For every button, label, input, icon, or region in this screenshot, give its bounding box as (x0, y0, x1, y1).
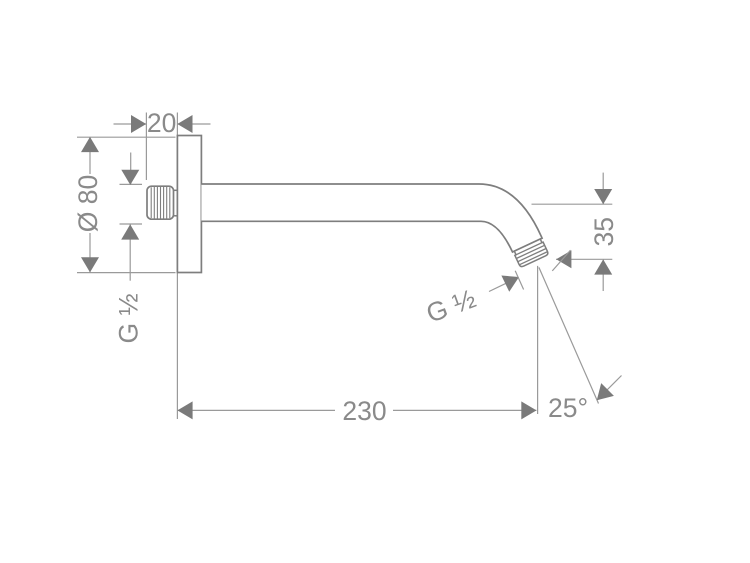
wall plate (escutcheon) (177, 136, 201, 273)
wire: wall face extension line (176, 113, 178, 420)
dimension 35: upper arrowhead (down) (594, 189, 612, 204)
label G1/2 at outlet: leader line (489, 283, 506, 291)
dimension 35: lower arrow tail (602, 260, 604, 291)
dimension G1/2 knob: down arrow tail (130, 153, 132, 185)
dimension 230: left arrowhead (177, 401, 192, 419)
dimension G1/2 knob: down arrowhead (121, 170, 139, 185)
dimension G1/2 knob: lower tick (120, 223, 143, 225)
wall connector stub: bottom edge (174, 215, 178, 217)
wall connector knob body (147, 186, 174, 219)
dimension 230: dimension line left segment (178, 409, 336, 411)
dimension 35: lower extension/arrow line (556, 258, 612, 260)
svg-text:20: 20 (147, 108, 176, 138)
dimension 35: upper arrow tail (602, 173, 604, 204)
wall connector knob: thread stripes (151, 187, 170, 219)
svg-text:G ½: G ½ (114, 293, 144, 343)
dimension 20: extension line at thread face (145, 113, 147, 181)
dimension 25deg: arrowhead (590, 383, 613, 406)
svg-text:25°: 25° (548, 393, 588, 423)
dimension 35: upper extension line (532, 203, 613, 205)
label G1/2 at outlet: oblique tick along thread (515, 271, 523, 290)
dimension Ø80: bottom extension line (77, 272, 176, 274)
dimension 35: left arrowhead at tip (556, 250, 571, 268)
outlet tip: collar and thread block (513, 239, 549, 268)
dimension Ø80: bottom arrowhead (81, 257, 99, 272)
svg-text:G ½: G ½ (422, 283, 479, 328)
dimension G1/2 knob: upper tick (120, 183, 143, 185)
dimension 20: right tail line (178, 123, 211, 125)
svg-text:Ø 80: Ø 80 (73, 175, 103, 232)
dimension Ø80: dimension line lower segment (89, 233, 91, 272)
dimension 20: left tail line (114, 123, 147, 125)
dimension 230: right extension line (vertical through tip) (537, 266, 539, 414)
dimension 230: dimension line right segment (393, 409, 536, 411)
dimension 20: right arrowhead (177, 115, 192, 133)
dimension 35: oblique tick at tip (552, 250, 570, 271)
dimension 25deg: slanted axis line (539, 267, 599, 403)
dimension G1/2 knob: up arrow tail (129, 225, 131, 281)
dimension Ø80: top extension line (77, 136, 176, 138)
dimension 20: left arrowhead (131, 115, 146, 133)
svg-text:35: 35 (589, 217, 619, 246)
dimension G1/2 knob: up arrowhead (121, 224, 139, 239)
outlet tip: thread lines (515, 242, 543, 255)
shower arm tube outline (201, 184, 542, 252)
svg-text:230: 230 (342, 396, 386, 426)
dimension 230: right arrowhead (521, 401, 536, 419)
dimension 35: lower arrowhead (up) (594, 259, 612, 274)
wall connector stub: top edge (174, 189, 178, 191)
dimension 25deg: leader tail (598, 376, 622, 400)
dimension Ø80: top arrowhead (81, 137, 99, 152)
label G1/2 at outlet: arrowhead (501, 269, 523, 292)
dimension Ø80: dimension line upper segment (89, 137, 91, 174)
